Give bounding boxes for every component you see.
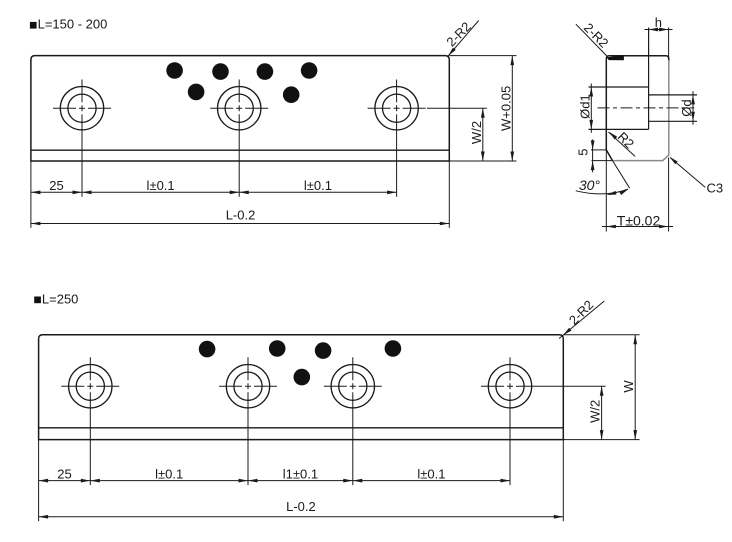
svg-text:Ød: Ød	[679, 99, 694, 116]
dimension L-0.2 (top)	[31, 208, 449, 226]
svg-text:W/2: W/2	[588, 400, 603, 423]
dot group top	[166, 62, 317, 103]
top plate outline	[31, 56, 449, 161]
dimension W+0.05 (top)	[449, 56, 516, 161]
svg-text:W+0.05: W+0.05	[498, 86, 513, 131]
counterbore step vertical	[648, 28, 650, 130]
dimension l±0.1 first (top)	[82, 178, 239, 194]
extension line left edge bottom plate	[38, 440, 40, 522]
svg-text:l±0.1: l±0.1	[304, 178, 332, 193]
label L=150-200	[30, 17, 107, 32]
svg-text:T±0.02: T±0.02	[617, 213, 661, 229]
svg-text:W: W	[621, 380, 636, 393]
svg-text:C3: C3	[707, 180, 724, 195]
hole B4	[481, 357, 539, 485]
hole B3	[324, 357, 382, 485]
hole A2	[210, 80, 268, 197]
extension line left edge top plate	[30, 161, 32, 228]
top plate groove line	[31, 149, 449, 151]
svg-text:5: 5	[576, 148, 591, 155]
svg-text:l±0.1: l±0.1	[155, 466, 183, 481]
svg-text:W/2: W/2	[469, 121, 484, 144]
svg-text:L-0.2: L-0.2	[286, 499, 316, 514]
dimension W (bottom)	[563, 335, 639, 440]
dimension 25 (top)	[31, 178, 82, 194]
counterbore top line	[589, 86, 649, 88]
hole A1	[53, 80, 111, 197]
dimension Ød	[679, 91, 695, 125]
leader C3	[669, 157, 723, 196]
hole d bottom line	[649, 120, 697, 122]
dimension W/2 (bottom)	[539, 386, 606, 439]
svg-text:25: 25	[57, 466, 71, 481]
svg-text:L-0.2: L-0.2	[226, 208, 256, 223]
svg-text:l±0.1: l±0.1	[147, 178, 175, 193]
svg-text:2-R2: 2-R2	[581, 20, 612, 51]
svg-text:l1±0.1: l1±0.1	[283, 466, 318, 481]
dimension h	[645, 15, 673, 59]
dimension l±0.1 first (bottom)	[90, 466, 248, 482]
section outline gray part	[612, 60, 669, 160]
dimension l1±0.1 (bottom)	[248, 466, 353, 482]
dimension l±0.1 second (top)	[239, 178, 396, 194]
dimension W/2 (top)	[427, 108, 487, 161]
leader 2-R2 (section)	[576, 20, 624, 60]
extension line right edge bottom plate	[562, 440, 564, 522]
section centerline	[598, 107, 695, 109]
svg-text:R2: R2	[615, 129, 637, 151]
dimension L-0.2 (bottom)	[39, 499, 564, 519]
dimension l±0.1 second (bottom)	[353, 466, 510, 482]
leader 2-R2 (bottom plate)	[559, 297, 604, 338]
leader R2	[609, 129, 638, 156]
svg-text:h: h	[655, 15, 662, 30]
label L=250	[34, 291, 78, 306]
hole B1	[61, 357, 119, 485]
angle 30 degrees	[576, 150, 630, 232]
dimension 5	[576, 139, 613, 172]
svg-text:25: 25	[49, 178, 63, 193]
bottom plate outline	[39, 335, 564, 440]
hole B2	[219, 357, 277, 485]
dimension T±0.02	[602, 158, 673, 232]
svg-text:l±0.1: l±0.1	[417, 466, 445, 481]
svg-text:L=150 - 200: L=150 - 200	[38, 17, 108, 32]
dot group bottom	[199, 340, 401, 385]
svg-text:Ød1: Ød1	[577, 94, 592, 119]
leader 2-R2 (top plate)	[443, 19, 478, 57]
section outline black part	[606, 56, 669, 161]
svg-text:2-R2: 2-R2	[443, 19, 474, 50]
hole A3	[368, 80, 426, 197]
svg-text:30°: 30°	[579, 177, 601, 193]
bottom plate groove line	[39, 427, 564, 429]
counterbore bottom line	[589, 128, 649, 130]
svg-text:L=250: L=250	[42, 291, 79, 306]
extension line right edge top plate	[448, 161, 450, 228]
hole d top line	[649, 94, 697, 96]
dimension 25 (bottom)	[39, 466, 91, 482]
dimension Ød1	[577, 84, 593, 133]
svg-text:2-R2: 2-R2	[566, 297, 597, 328]
